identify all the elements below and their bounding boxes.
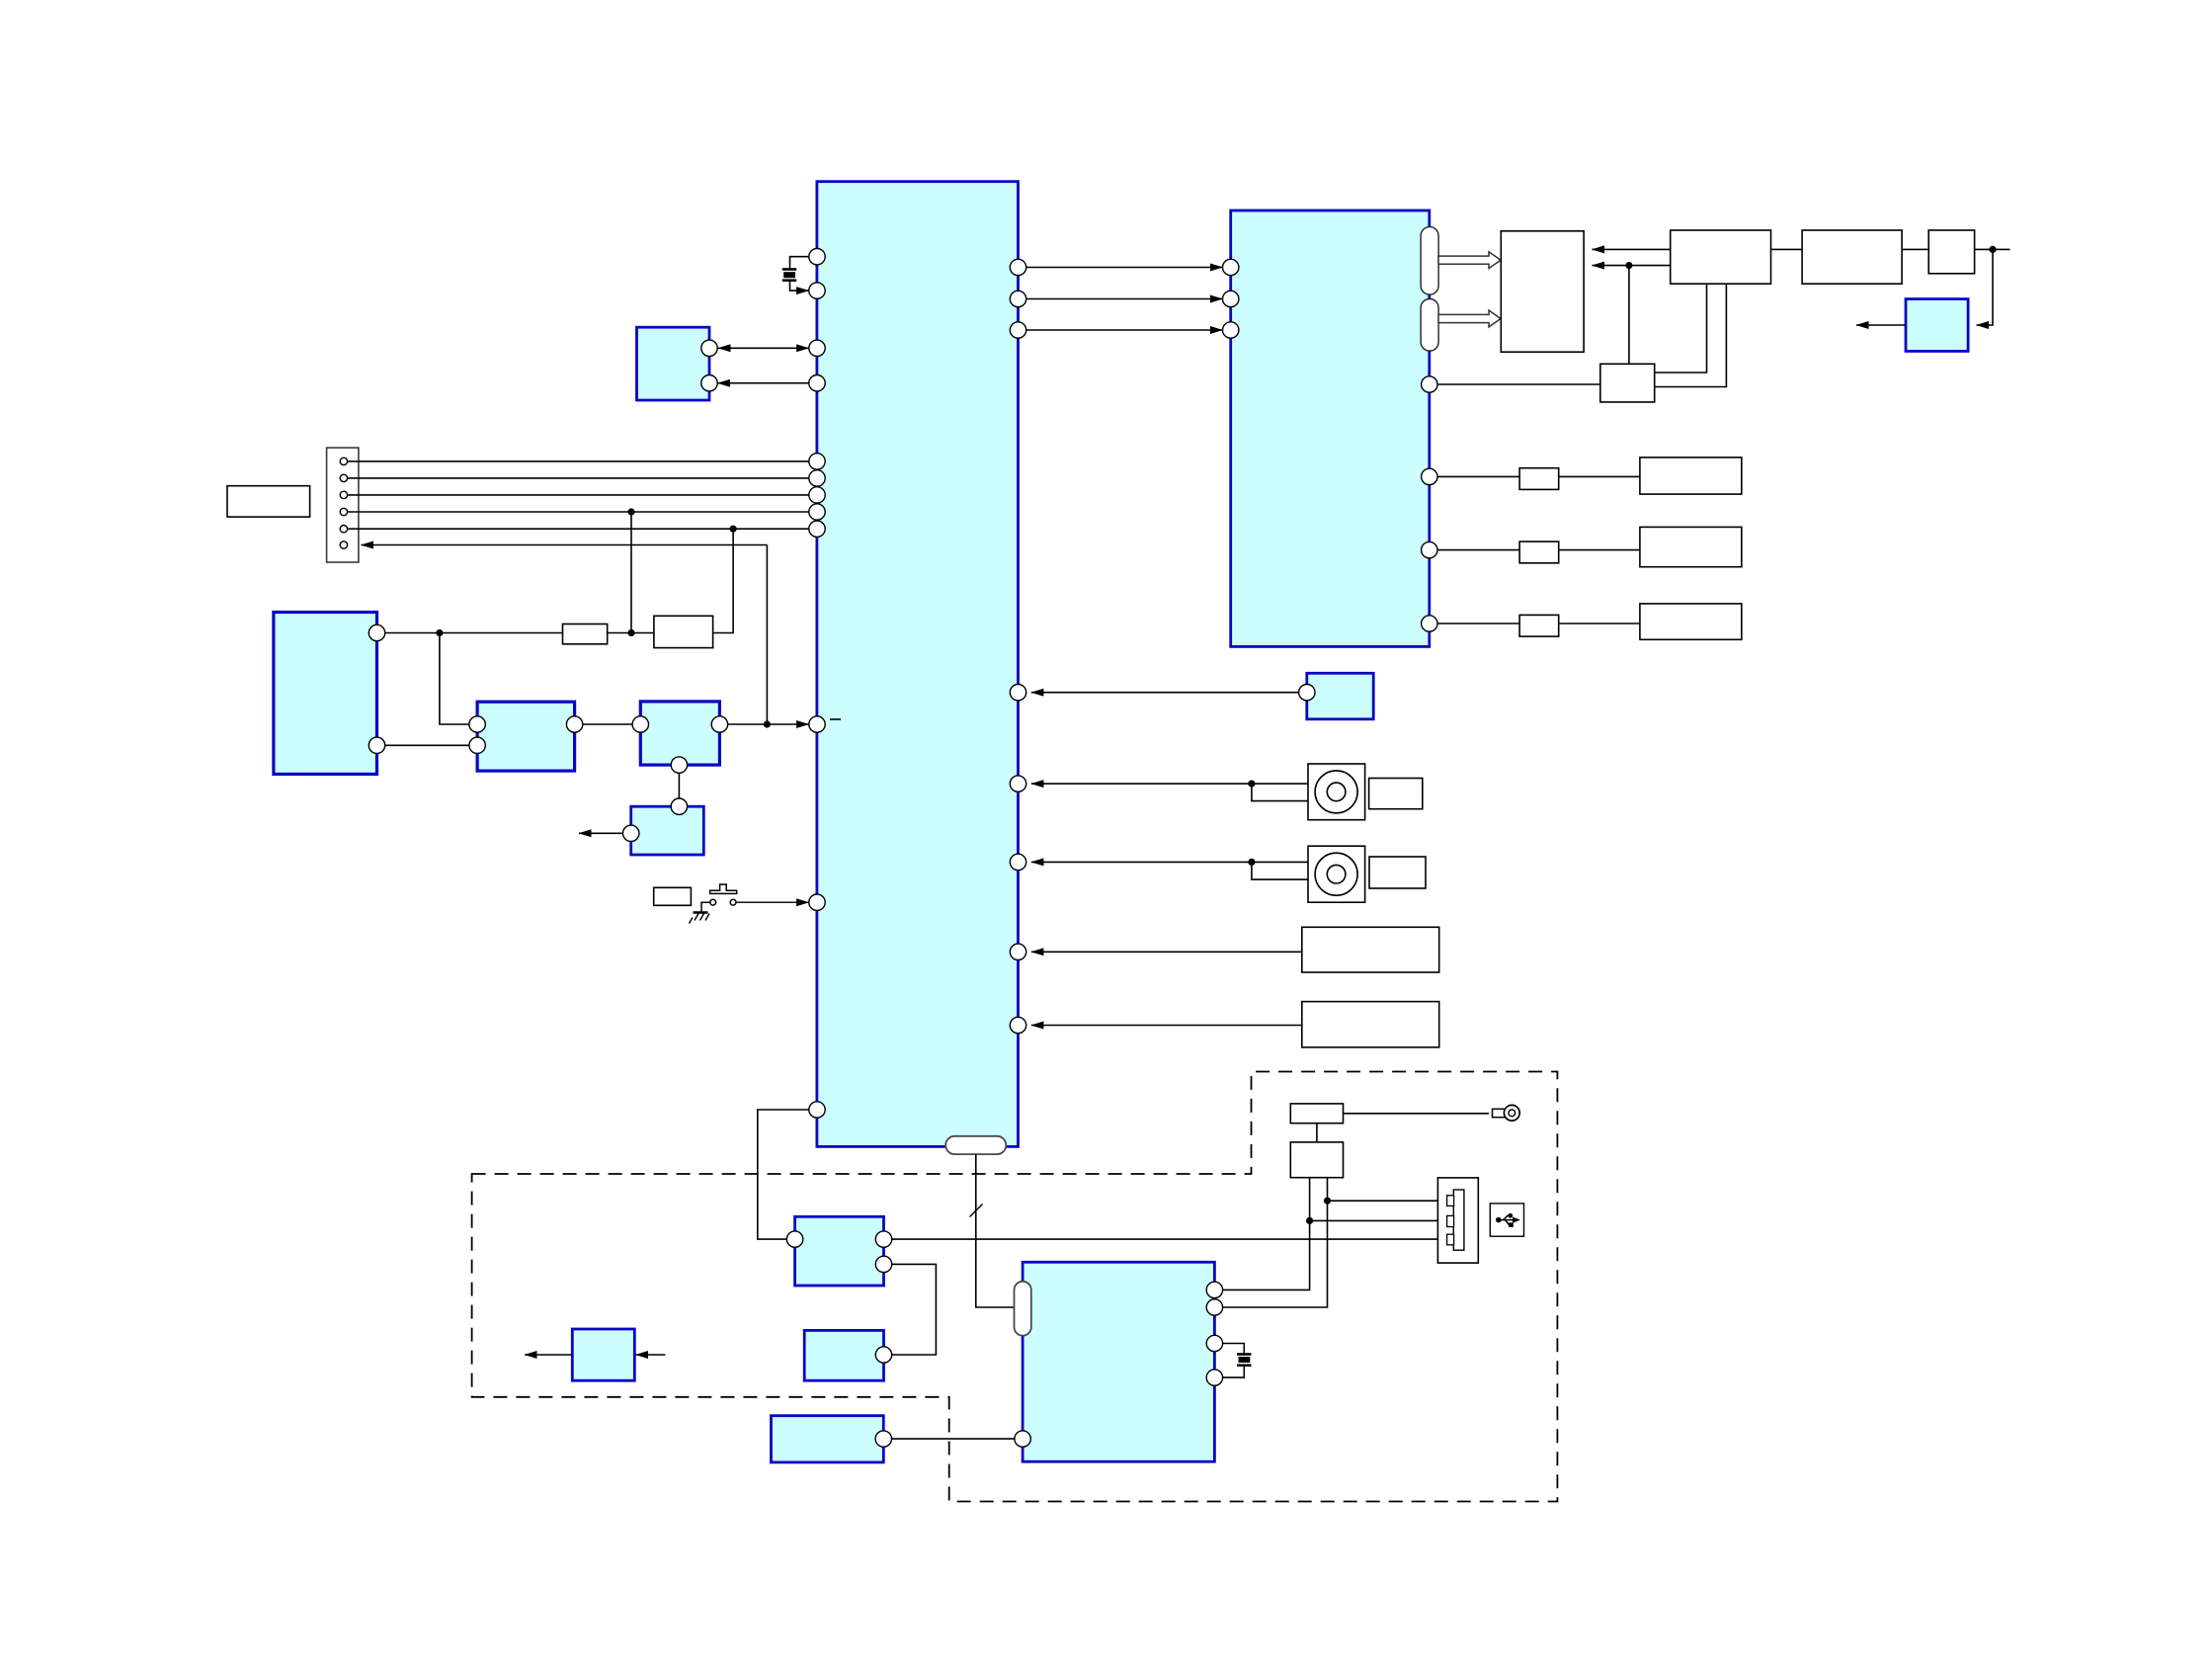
memory box W1 xyxy=(1501,231,1584,352)
wire U10 to U11 xyxy=(884,1264,937,1355)
block U6 small xyxy=(631,806,704,855)
node on line4 xyxy=(627,508,634,515)
wire node to U4 xyxy=(440,633,477,725)
wire W4 stub xyxy=(1975,248,2010,250)
node W2b xyxy=(1625,262,1632,269)
wire W2 to W1 b xyxy=(1593,265,1671,267)
wire U7 to W5 xyxy=(1430,383,1600,385)
row2 small box W11 xyxy=(1519,541,1559,563)
node tab2 xyxy=(1306,1217,1313,1224)
block U13 xyxy=(772,1416,884,1462)
U1 bottom capsule port xyxy=(945,1136,1006,1154)
USB logo box xyxy=(1490,1204,1523,1236)
wire U3 pin to R1 xyxy=(377,632,563,634)
U14 pins xyxy=(1015,1282,1223,1447)
U7 capsule port 1 xyxy=(1421,227,1438,295)
node A junction xyxy=(764,720,771,727)
wire row2 xyxy=(1430,549,1519,551)
box B1 xyxy=(654,616,713,647)
USB connector CN2 xyxy=(1437,1178,1478,1263)
box W16 xyxy=(1302,1002,1439,1047)
wire U5 bottom to U6 xyxy=(678,765,680,806)
wire S1 lower xyxy=(1252,784,1308,801)
label box S2 xyxy=(1369,857,1426,888)
wire row1 b xyxy=(1559,475,1640,477)
hollow bus arrow 2 xyxy=(1438,310,1501,327)
wire U1 to U7 bus1 xyxy=(1019,267,1223,269)
row2 box W12 xyxy=(1640,527,1742,566)
label box W8 switch xyxy=(654,887,692,905)
wire U10 to USB connector D+ xyxy=(884,1238,1448,1240)
block U11 xyxy=(804,1330,883,1380)
block U5 medium xyxy=(640,702,719,765)
IC U14 USB controller xyxy=(1023,1262,1214,1461)
wire node to USB tab2 xyxy=(1310,1219,1447,1221)
main IC U1 xyxy=(817,182,1019,1147)
box W4 xyxy=(1928,230,1974,274)
wire U14 pin2 to USB xyxy=(1214,1178,1327,1308)
wire W6 to W7 xyxy=(1316,1123,1318,1142)
node S2 xyxy=(1248,859,1255,866)
wire vertical node line4 to resistor node xyxy=(630,512,632,633)
U13 pin xyxy=(875,1431,891,1447)
IC U2 small box left of U1 xyxy=(637,327,710,400)
U1 pins right xyxy=(1010,259,1025,1033)
wire W5 to W2 a xyxy=(1655,284,1707,373)
hollow bus arrow 1 xyxy=(1438,252,1501,269)
dashed boundary xyxy=(472,1072,1558,1502)
wire U8 out left xyxy=(1856,324,1906,326)
wire S1 to U1 xyxy=(1031,783,1308,785)
wire W2 to W1 a xyxy=(1593,248,1671,250)
wire U1 to U7 bus3 xyxy=(1019,329,1223,331)
wire W16 to U1 xyxy=(1031,1025,1302,1027)
wire node to U8 xyxy=(1977,249,1994,325)
wire CN1-6 from node x776 xyxy=(362,544,768,546)
wire node to USB tab1 xyxy=(1328,1200,1448,1202)
rotary encoder S2 xyxy=(1308,846,1365,902)
wire S2 lower xyxy=(1252,862,1308,879)
box W6 fuse xyxy=(1290,1104,1343,1123)
block U4 medium xyxy=(477,702,574,771)
node R1-B1 xyxy=(627,629,634,636)
wire CN1-1 to U1 xyxy=(348,460,817,462)
U4 pins xyxy=(469,716,583,754)
wire bus U1 to U14 xyxy=(976,1154,1015,1307)
wire CN1-5 to U1 xyxy=(348,528,817,530)
resistor R1 xyxy=(563,624,608,644)
crystal X1 xyxy=(782,257,817,291)
box W15 xyxy=(1302,927,1439,972)
wire W2 to W3 xyxy=(1771,248,1803,250)
U11 pin xyxy=(875,1347,891,1363)
U1 pins left xyxy=(809,249,825,1119)
wire row2 b xyxy=(1559,549,1640,551)
wire CN1-4 to U1 xyxy=(348,511,817,513)
U5 pins xyxy=(632,716,728,774)
wire U1 to U7 bus2 xyxy=(1019,298,1223,300)
U9 pin xyxy=(1299,685,1315,701)
wire W15 to U1 xyxy=(1031,951,1302,953)
wire SW1 to U1 xyxy=(736,901,808,903)
node S1 xyxy=(1248,781,1255,788)
U7 capsule port 2 xyxy=(1421,299,1438,352)
wire line6 vertical to node A xyxy=(766,545,768,725)
IC U7 top right xyxy=(1231,210,1430,646)
ground xyxy=(690,902,710,923)
USB trident icon xyxy=(1497,1213,1519,1226)
rotary encoder S1 xyxy=(1308,764,1365,820)
row3 small box W13 xyxy=(1519,615,1559,636)
label box W0 xyxy=(227,486,310,517)
wire W6 to ring terminal xyxy=(1344,1113,1490,1115)
U3 pins xyxy=(369,624,384,753)
crystal X2 xyxy=(1214,1344,1251,1378)
U2 pins xyxy=(701,340,717,391)
label box S1 xyxy=(1369,779,1423,809)
U6 pins xyxy=(623,798,688,842)
wire U5 to U1 xyxy=(719,723,808,725)
wire U1 to U10 xyxy=(758,1110,817,1239)
wire node to W5 xyxy=(1628,266,1630,365)
node U3 line xyxy=(436,629,443,636)
wire row3 xyxy=(1430,623,1519,624)
push switch SW1 xyxy=(710,884,737,905)
wire W5 to W2 b xyxy=(1655,284,1727,386)
CN1 contact circles xyxy=(340,458,347,548)
wire S2 to U1 xyxy=(1031,861,1308,863)
wire U6 arrow out xyxy=(579,832,631,834)
row1 box W10 xyxy=(1640,458,1742,494)
U14 capsule port xyxy=(1015,1282,1031,1336)
wire U3 to U4 lower xyxy=(377,744,478,746)
node on line5 xyxy=(730,526,737,533)
wire U1 to U2 arrow xyxy=(718,382,818,384)
wire CN1-2 to U1 xyxy=(348,477,817,479)
wire vertical node line5 to box B1 xyxy=(713,529,734,632)
wire row1 xyxy=(1430,475,1519,477)
connector CN1 xyxy=(327,448,359,562)
block U10 level shifter xyxy=(795,1216,884,1286)
wire U2 to U1 bidirectional xyxy=(718,347,809,349)
wire CN1-3 to U1 xyxy=(348,494,817,496)
row1 small box W9 xyxy=(1519,468,1559,490)
wire R1 to B1 xyxy=(608,632,654,634)
wire row3 b xyxy=(1559,623,1640,624)
ring terminal P1 xyxy=(1493,1105,1520,1121)
block U12 two arrows xyxy=(572,1329,634,1380)
wire U9 to U1 xyxy=(1031,692,1307,694)
wire U13 to U14 xyxy=(883,1438,1023,1440)
node tab1 xyxy=(1324,1198,1331,1205)
box W5 xyxy=(1600,364,1655,402)
wire U12 arrow out xyxy=(525,1354,572,1356)
box W2 xyxy=(1671,230,1771,284)
U7 pins xyxy=(1223,259,1438,631)
block U3 big left xyxy=(274,613,377,775)
wire U14 pin1 to USB VBUS xyxy=(1214,1178,1309,1290)
U10 pins xyxy=(786,1231,891,1273)
bus slash xyxy=(970,1205,983,1217)
block U9 small right of U1 xyxy=(1307,673,1373,719)
U1 pin tick label xyxy=(830,718,841,720)
row3 box W14 xyxy=(1640,604,1742,639)
box W7 xyxy=(1290,1142,1343,1178)
wire U4 to U5 xyxy=(575,723,641,725)
box W3 xyxy=(1802,230,1902,284)
block U8 small cyan far right xyxy=(1906,299,1968,352)
node W4 xyxy=(1989,246,1996,253)
wire W3 to W4 xyxy=(1902,248,1928,250)
wire into U12 right xyxy=(636,1354,666,1356)
